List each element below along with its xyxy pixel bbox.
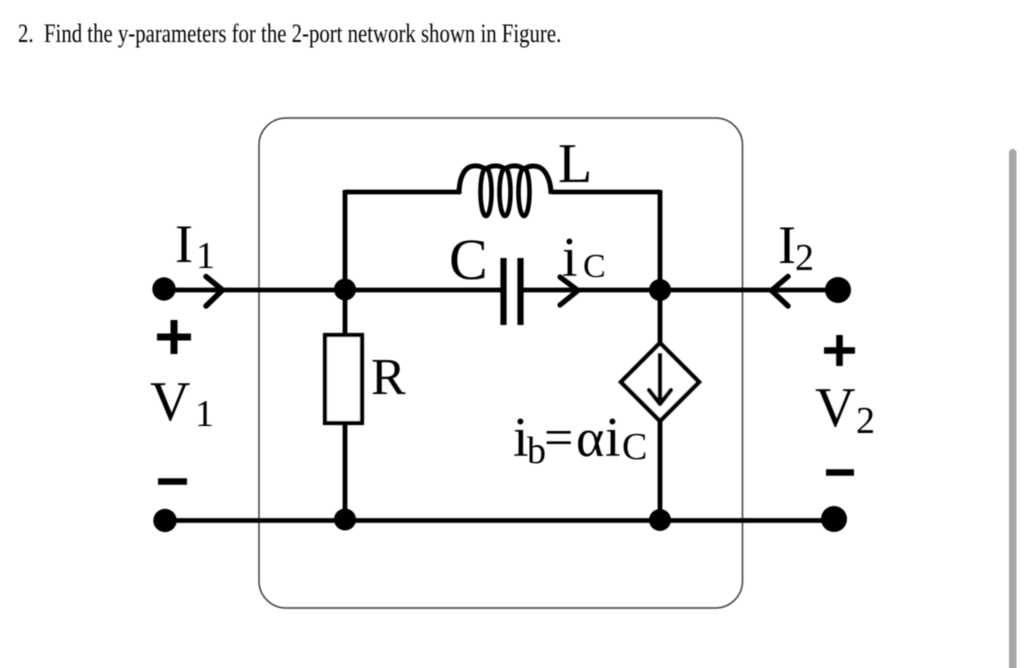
- svg-text:C: C: [583, 248, 606, 285]
- port1 bottom terminal: [153, 509, 176, 532]
- minus sign port2: [826, 469, 854, 476]
- plus sign port1: [157, 320, 191, 354]
- port2 bottom terminal: [821, 506, 847, 532]
- svg-text:2: 2: [856, 400, 875, 442]
- wire: right loop vertical / source branch upper: [658, 190, 663, 345]
- wire: bottom rail: [165, 518, 834, 523]
- resistor R body: [325, 335, 362, 423]
- wire: inductor loop top, left part: [345, 190, 460, 195]
- wire: left loop vertical / resistor branch upper: [343, 190, 348, 336]
- current arrow I2: [772, 277, 789, 307]
- inductor L coil: hump 3: [505, 166, 524, 170]
- junction dot top-left: [334, 279, 356, 301]
- svg-text:V: V: [150, 371, 190, 433]
- svg-text:i: i: [562, 227, 578, 289]
- svg-text:V: V: [815, 377, 855, 439]
- svg-text:C: C: [449, 227, 488, 292]
- wire: source branch lower: [658, 419, 663, 521]
- junction dot bottom-right: [649, 509, 671, 531]
- svg-text:R: R: [371, 349, 406, 406]
- svg-text:2: 2: [795, 237, 814, 279]
- port1 top terminal: [152, 277, 175, 300]
- wire: top rail right segment (capacitor to port2): [523, 288, 838, 293]
- junction dot bottom-left: [334, 509, 356, 531]
- current arrow I1: [206, 277, 223, 307]
- svg-text:L: L: [558, 133, 592, 195]
- svg-text:α: α: [576, 408, 604, 468]
- scrollbar: [1009, 149, 1017, 668]
- inductor L coil: loop 2: [500, 168, 511, 216]
- dependent source arrow (down): [658, 353, 662, 400]
- svg-text:i: i: [605, 407, 621, 469]
- wire: top rail left segment (port1 to capacitor): [164, 288, 501, 293]
- junction dot top-right: [649, 279, 671, 301]
- 2-port network boundary box: [259, 118, 743, 608]
- inductor L coil: hump 2: [486, 166, 505, 170]
- capacitor C right plate: [517, 258, 523, 325]
- wire: inductor loop top, right part: [551, 190, 660, 195]
- svg-text:C: C: [622, 426, 647, 468]
- inductor L coil: loop 1: [481, 168, 492, 216]
- inductor L coil: hump 4: [524, 166, 551, 194]
- svg-text:=: =: [544, 410, 573, 467]
- current arrow ic on wire: [560, 277, 578, 305]
- svg-text:1: 1: [196, 235, 215, 277]
- capacitor C left plate: [500, 258, 506, 325]
- wire: resistor branch lower: [343, 422, 348, 521]
- svg-text:I: I: [778, 215, 796, 275]
- minus sign port1: [158, 478, 187, 485]
- inductor L coil: loop 3: [519, 168, 530, 216]
- plus sign port2: [824, 335, 855, 366]
- svg-text:2. Find the y-parameters for: 2. Find the y-parameters for the 2-port …: [18, 20, 561, 49]
- svg-text:I: I: [175, 214, 193, 274]
- inductor L coil: hump 1: [459, 166, 486, 194]
- dependent current source diamond: [621, 343, 699, 421]
- port2 top terminal: [825, 277, 851, 303]
- svg-text:1: 1: [195, 393, 214, 435]
